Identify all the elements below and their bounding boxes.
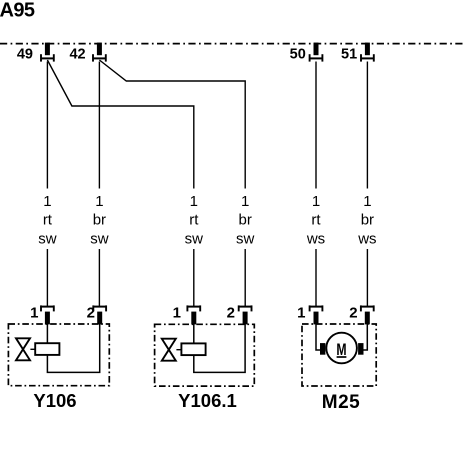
svg-text:rt: rt [43, 211, 53, 228]
svg-text:2: 2 [227, 305, 235, 322]
svg-text:M25: M25 [322, 392, 360, 413]
svg-text:ws: ws [357, 230, 376, 247]
svg-text:br: br [93, 211, 106, 228]
svg-text:1: 1 [312, 193, 320, 210]
svg-text:br: br [239, 211, 252, 228]
svg-text:1: 1 [173, 305, 181, 322]
svg-text:Y106: Y106 [33, 390, 76, 411]
svg-text:1: 1 [241, 193, 249, 210]
svg-text:50: 50 [290, 46, 306, 62]
svg-text:rt: rt [189, 211, 199, 228]
svg-text:1: 1 [190, 193, 198, 210]
svg-text:sw: sw [38, 230, 57, 247]
svg-text:ws: ws [306, 230, 325, 247]
svg-text:1: 1 [363, 193, 371, 210]
svg-text:49: 49 [17, 46, 33, 62]
svg-text:A95: A95 [0, 0, 35, 21]
svg-text:1: 1 [297, 305, 305, 322]
svg-text:51: 51 [341, 46, 357, 62]
svg-text:rt: rt [311, 211, 321, 228]
svg-text:1: 1 [43, 193, 51, 210]
svg-text:42: 42 [69, 46, 85, 62]
svg-text:2: 2 [349, 305, 357, 322]
svg-text:sw: sw [236, 230, 255, 247]
svg-text:sw: sw [90, 230, 109, 247]
svg-text:Y106.1: Y106.1 [178, 390, 237, 411]
svg-text:br: br [361, 211, 374, 228]
svg-text:1: 1 [30, 305, 38, 322]
svg-text:2: 2 [87, 305, 95, 322]
svg-text:1: 1 [95, 193, 103, 210]
svg-text:sw: sw [185, 230, 204, 247]
